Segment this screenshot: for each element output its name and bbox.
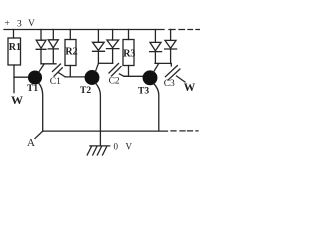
node bar LED pair 2 <box>99 62 113 64</box>
wire T1 emitter <box>39 83 43 131</box>
+3V supply rail <box>4 29 164 31</box>
LED D5 <box>150 42 162 51</box>
wire rail to R2 <box>69 30 71 40</box>
wire T3 emitter <box>154 84 159 131</box>
svg-text:+: + <box>5 19 10 29</box>
svg-text:T2: T2 <box>80 86 91 96</box>
wire R1 to node W <box>13 65 15 93</box>
svg-text:R1: R1 <box>9 42 21 53</box>
svg-text:W: W <box>11 93 23 107</box>
LED D2 <box>48 40 58 49</box>
LED D3 cathode wire <box>97 51 99 63</box>
transistor T1 <box>29 71 42 84</box>
bottom rail dashed continuation <box>171 130 198 132</box>
capacitor C2 <box>109 64 121 77</box>
wire rail to R1 <box>13 30 15 39</box>
label 0V <box>114 142 133 152</box>
svg-text:3: 3 <box>17 20 22 30</box>
svg-text:V: V <box>28 19 35 29</box>
LED D5 cathode wire <box>154 52 156 64</box>
wire rail to R3 <box>128 30 130 40</box>
svg-text:0: 0 <box>114 142 119 152</box>
wire R3 to base node <box>128 66 130 77</box>
wire R2 to base node <box>69 66 71 77</box>
LED D3 <box>93 42 105 51</box>
LED D4 anode wire <box>112 30 114 41</box>
ground <box>87 146 110 155</box>
wire C3 to node W <box>177 76 186 82</box>
LED D2 cathode wire <box>52 49 54 64</box>
svg-text:T3: T3 <box>138 87 149 97</box>
svg-text:C3: C3 <box>164 79 175 89</box>
capacitor C3 <box>165 66 180 81</box>
wire T3 base <box>124 75 143 77</box>
svg-text:R3: R3 <box>123 49 135 60</box>
LED D4 cathode wire <box>112 49 114 64</box>
wire T1 base <box>14 76 28 78</box>
wire T2 base <box>65 76 85 78</box>
label +3V <box>5 19 36 30</box>
svg-text:R2: R2 <box>65 47 77 58</box>
resistor R3 <box>123 40 134 66</box>
LED D6 <box>165 40 177 49</box>
LED D3 anode wire <box>97 30 99 43</box>
svg-text:V: V <box>126 142 133 152</box>
LED D1 anode wire <box>40 30 42 41</box>
transistor T3 <box>143 71 157 85</box>
svg-text:W: W <box>184 82 196 94</box>
resistor R2 <box>65 40 76 66</box>
LED D1 <box>36 40 46 49</box>
LED D4 <box>107 40 119 49</box>
capacitor C1 <box>53 64 63 76</box>
svg-text:A: A <box>27 137 35 149</box>
wire T2 collector <box>95 63 98 71</box>
svg-text:C1: C1 <box>50 77 61 87</box>
svg-text:C2: C2 <box>109 76 120 86</box>
0V bottom rail <box>43 130 168 132</box>
node bar LED pair 3 <box>155 63 171 66</box>
resistor R1 <box>8 38 21 65</box>
wire stub to node A <box>35 131 43 138</box>
node bar LED pair 1 <box>41 63 56 65</box>
LED D6 cathode wire <box>170 49 172 63</box>
LED D1 cathode wire <box>40 49 42 64</box>
transistor T2 <box>85 71 99 85</box>
wire T2 emitter to ground <box>96 83 101 145</box>
+3V rail dashed continuation <box>169 29 200 31</box>
LED D6 anode wire <box>170 30 172 41</box>
wire C2 to T3 base <box>120 74 129 76</box>
wire T1 collector <box>39 64 44 72</box>
wire C1 to T2 base <box>59 73 65 77</box>
LED D5 anode wire <box>154 30 156 43</box>
wire T3 collector <box>154 63 159 72</box>
LED D2 anode wire <box>52 30 54 40</box>
svg-text:T1: T1 <box>27 84 38 94</box>
